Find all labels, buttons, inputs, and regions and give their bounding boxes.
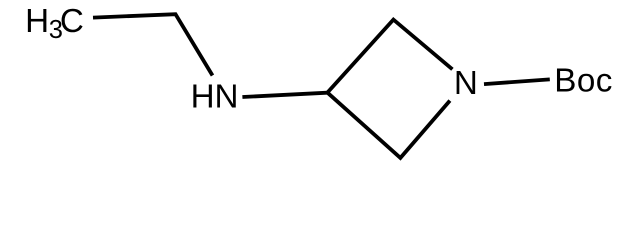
svg-text:C: C [60,3,84,40]
svg-text:N: N [454,65,478,102]
svg-text:HN: HN [191,79,239,116]
svg-text:H: H [25,3,49,40]
svg-text:Boc: Boc [554,63,613,100]
